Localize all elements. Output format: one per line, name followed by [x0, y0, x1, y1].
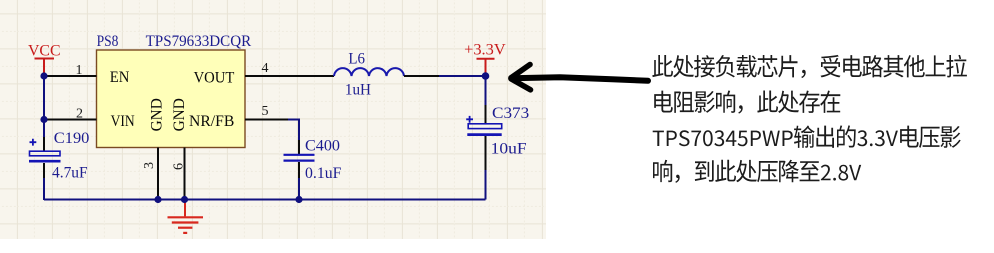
ground bar 3 — [178, 227, 192, 229]
svg-text:C373: C373 — [492, 105, 529, 122]
svg-text:4.7uF: 4.7uF — [52, 164, 88, 181]
svg-text:2: 2 — [76, 107, 83, 122]
pin 1 (EN) — [44, 75, 97, 77]
wire: left vertical from VCC node to C190 — [43, 76, 45, 137]
capacitor C190 — [29, 130, 89, 182]
pin 6 (GND) — [184, 148, 186, 200]
wire: L6 output to +3.3V node — [439, 75, 486, 77]
svg-text:C190: C190 — [54, 130, 90, 147]
node junction at VCC/pin2 — [40, 116, 47, 123]
C190 plus mark — [30, 139, 37, 146]
svg-text:GND: GND — [149, 98, 166, 131]
inductor L6 — [334, 51, 439, 99]
sheet background — [0, 0, 546, 239]
pin 3 (GND) — [157, 148, 159, 200]
capacitor C400 — [284, 138, 342, 182]
node junction C400/rail — [295, 196, 302, 203]
node junction pin6/rail — [181, 196, 188, 203]
capacitor C373 — [466, 105, 529, 170]
ground symbol — [168, 200, 204, 233]
annotation line 4 — [653, 160, 861, 183]
pin 5 (NR/FB) — [245, 119, 288, 121]
C400 bottom lead — [298, 162, 300, 178]
annotation text (4 lines, vector glyphs) — [652, 55, 967, 183]
wire: +3.3V node down to C373 — [485, 76, 487, 105]
C373 bottom lead — [485, 136, 487, 170]
C190 positive plate — [30, 151, 61, 156]
annotation line 1 — [652, 55, 967, 78]
ground stem — [184, 200, 186, 216]
svg-text:VIN: VIN — [111, 113, 135, 130]
svg-text:3: 3 — [142, 162, 157, 169]
C400 top lead — [298, 140, 300, 154]
pin 4 (VOUT) — [245, 75, 334, 77]
C190 bottom lead — [43, 163, 45, 178]
node junction pin3/rail — [154, 196, 161, 203]
wire: pin5 elbow down to C400 — [288, 120, 299, 141]
svg-text:5: 5 — [262, 104, 269, 119]
C373 plus mark — [466, 116, 473, 123]
L6 right lead — [404, 75, 439, 77]
C373 top lead — [485, 105, 487, 124]
power +3.3V symbol — [464, 41, 506, 74]
svg-text:EN: EN — [110, 69, 130, 86]
svg-text:VCC: VCC — [28, 43, 61, 60]
svg-text:1: 1 — [76, 63, 83, 78]
svg-text:NR/FB: NR/FB — [189, 113, 234, 130]
svg-text:10uF: 10uF — [491, 141, 527, 158]
power VCC symbol — [28, 43, 61, 77]
svg-text:1uH: 1uH — [345, 82, 372, 99]
ground bar 4 — [183, 232, 187, 234]
annotation arrow — [511, 65, 648, 90]
arrow lower barb — [511, 79, 531, 90]
svg-text:TPS79633DCQR: TPS79633DCQR — [146, 33, 252, 50]
svg-text:L6: L6 — [348, 51, 365, 68]
C190 top lead — [43, 137, 45, 151]
pin 2 (VIN) — [44, 119, 97, 121]
C400 bottom plate — [284, 160, 315, 162]
node +3.3V junction — [482, 72, 490, 80]
wire: C373 bottom lead to rail — [485, 170, 487, 200]
ground bar 1 — [168, 216, 204, 218]
C190 negative plate — [29, 160, 61, 163]
wire: bottom ground rail — [44, 199, 486, 201]
wire: C400 bottom lead to rail — [298, 178, 300, 200]
svg-text:PS8: PS8 — [97, 33, 119, 50]
svg-text:4: 4 — [262, 61, 269, 76]
node junction at VCC/pin1 — [40, 72, 47, 79]
C400 top plate — [284, 154, 315, 156]
ground bar 2 — [172, 221, 199, 223]
+3.3V power bar — [477, 59, 495, 74]
annotation line 3 — [653, 125, 961, 147]
L6 coil arcs — [334, 68, 404, 76]
svg-text:GND: GND — [171, 98, 188, 131]
svg-text:VOUT: VOUT — [194, 69, 235, 86]
arrow shaft — [512, 77, 649, 81]
IC PS8 body (TPS79633DCQR) — [97, 50, 246, 148]
VCC power bar — [35, 59, 55, 77]
wire: C190 bottom lead to rail — [43, 178, 45, 200]
svg-text:+3.3V: +3.3V — [464, 41, 506, 58]
annotation line 2 — [654, 91, 840, 114]
svg-text:6: 6 — [172, 163, 187, 170]
arrow upper barb — [511, 65, 530, 78]
C373 positive plate — [468, 124, 502, 129]
C373 negative plate — [467, 133, 501, 136]
svg-text:0.1uF: 0.1uF — [305, 165, 341, 182]
svg-text:C400: C400 — [305, 138, 340, 155]
